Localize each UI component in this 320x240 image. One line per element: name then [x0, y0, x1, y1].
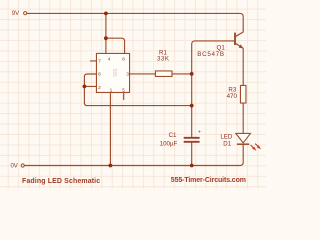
- wire pin 4 to 9V rail: [105, 13, 107, 53]
- transistor Q1 emitter: [235, 43, 243, 48]
- junction pin 4 / pin 8: [104, 36, 108, 40]
- svg-text:8: 8: [122, 57, 125, 63]
- LED D1 triangle: [236, 133, 251, 143]
- svg-text:1: 1: [110, 88, 113, 94]
- wire pin 1 to 0V rail: [109, 93, 111, 166]
- svg-text:BC547B: BC547B: [197, 51, 225, 58]
- svg-text:100µF: 100µF: [160, 141, 178, 148]
- svg-text:C1: C1: [169, 132, 177, 139]
- svg-text:LED: LED: [220, 133, 233, 140]
- LED D1 light arrow 2: [255, 144, 258, 147]
- svg-text:555-Timer-Circuits.com: 555-Timer-Circuits.com: [171, 177, 246, 184]
- IC U1 555 timer body: [96, 53, 129, 92]
- svg-text:0V: 0V: [10, 163, 17, 169]
- transistor Q1 base bar: [234, 33, 236, 45]
- junction C1 / 0V rail: [190, 164, 194, 168]
- junction top rail / pin 4: [104, 12, 108, 16]
- wire pin 8 branch: [106, 38, 125, 53]
- svg-text:470: 470: [227, 93, 238, 100]
- wire pin 6 to node C: [84, 74, 191, 106]
- transistor Q1 emitter arrow: [239, 44, 244, 48]
- resistor R1 body: [155, 71, 172, 77]
- junction pin 2 / pin 6: [83, 85, 87, 89]
- wire 9V top rail: [27, 13, 243, 32]
- wire R1 to node C: [172, 73, 192, 75]
- svg-text:9V: 9V: [12, 11, 19, 17]
- wire Q1 emitter to R3: [242, 49, 244, 86]
- junction pin 1 / 0V rail: [109, 164, 113, 168]
- svg-text:2: 2: [98, 85, 101, 91]
- junction node C / C1: [190, 104, 194, 108]
- svg-text:5: 5: [122, 88, 125, 94]
- svg-text:555: 555: [111, 69, 117, 78]
- transistor Q1 collector: [235, 32, 243, 37]
- wire node C to C1: [191, 74, 193, 137]
- LED D1 cathode bar: [237, 143, 249, 145]
- node 9V terminal circle: [24, 12, 27, 15]
- wire pin 2 branch: [84, 85, 96, 87]
- svg-text:7: 7: [98, 58, 101, 64]
- wire pin 7 stub: [90, 60, 96, 62]
- capacitor C1 bottom plate: [184, 141, 200, 143]
- wire 0V bottom rail: [25, 144, 244, 165]
- svg-text:D1: D1: [223, 140, 231, 147]
- capacitor C1 top plate: [184, 137, 200, 139]
- svg-text:+: +: [198, 130, 201, 136]
- junction R1 / node C: [190, 72, 194, 76]
- svg-text:4: 4: [108, 57, 111, 63]
- svg-text:3: 3: [126, 72, 129, 78]
- wire pin 5 stub: [123, 93, 125, 100]
- node 0V terminal circle: [21, 164, 24, 167]
- wire R3 to LED D1: [242, 103, 244, 133]
- svg-text:6: 6: [98, 72, 101, 78]
- wire C1 to 0V rail: [191, 143, 193, 166]
- resistor R3 body: [240, 85, 246, 103]
- LED D1 light arrow 1: [251, 145, 254, 148]
- svg-text:33K: 33K: [157, 55, 170, 62]
- wire node C to Q1 base: [192, 41, 235, 74]
- svg-text:Fading LED Schematic: Fading LED Schematic: [22, 178, 100, 185]
- wire pin 3 to R1: [130, 73, 156, 75]
